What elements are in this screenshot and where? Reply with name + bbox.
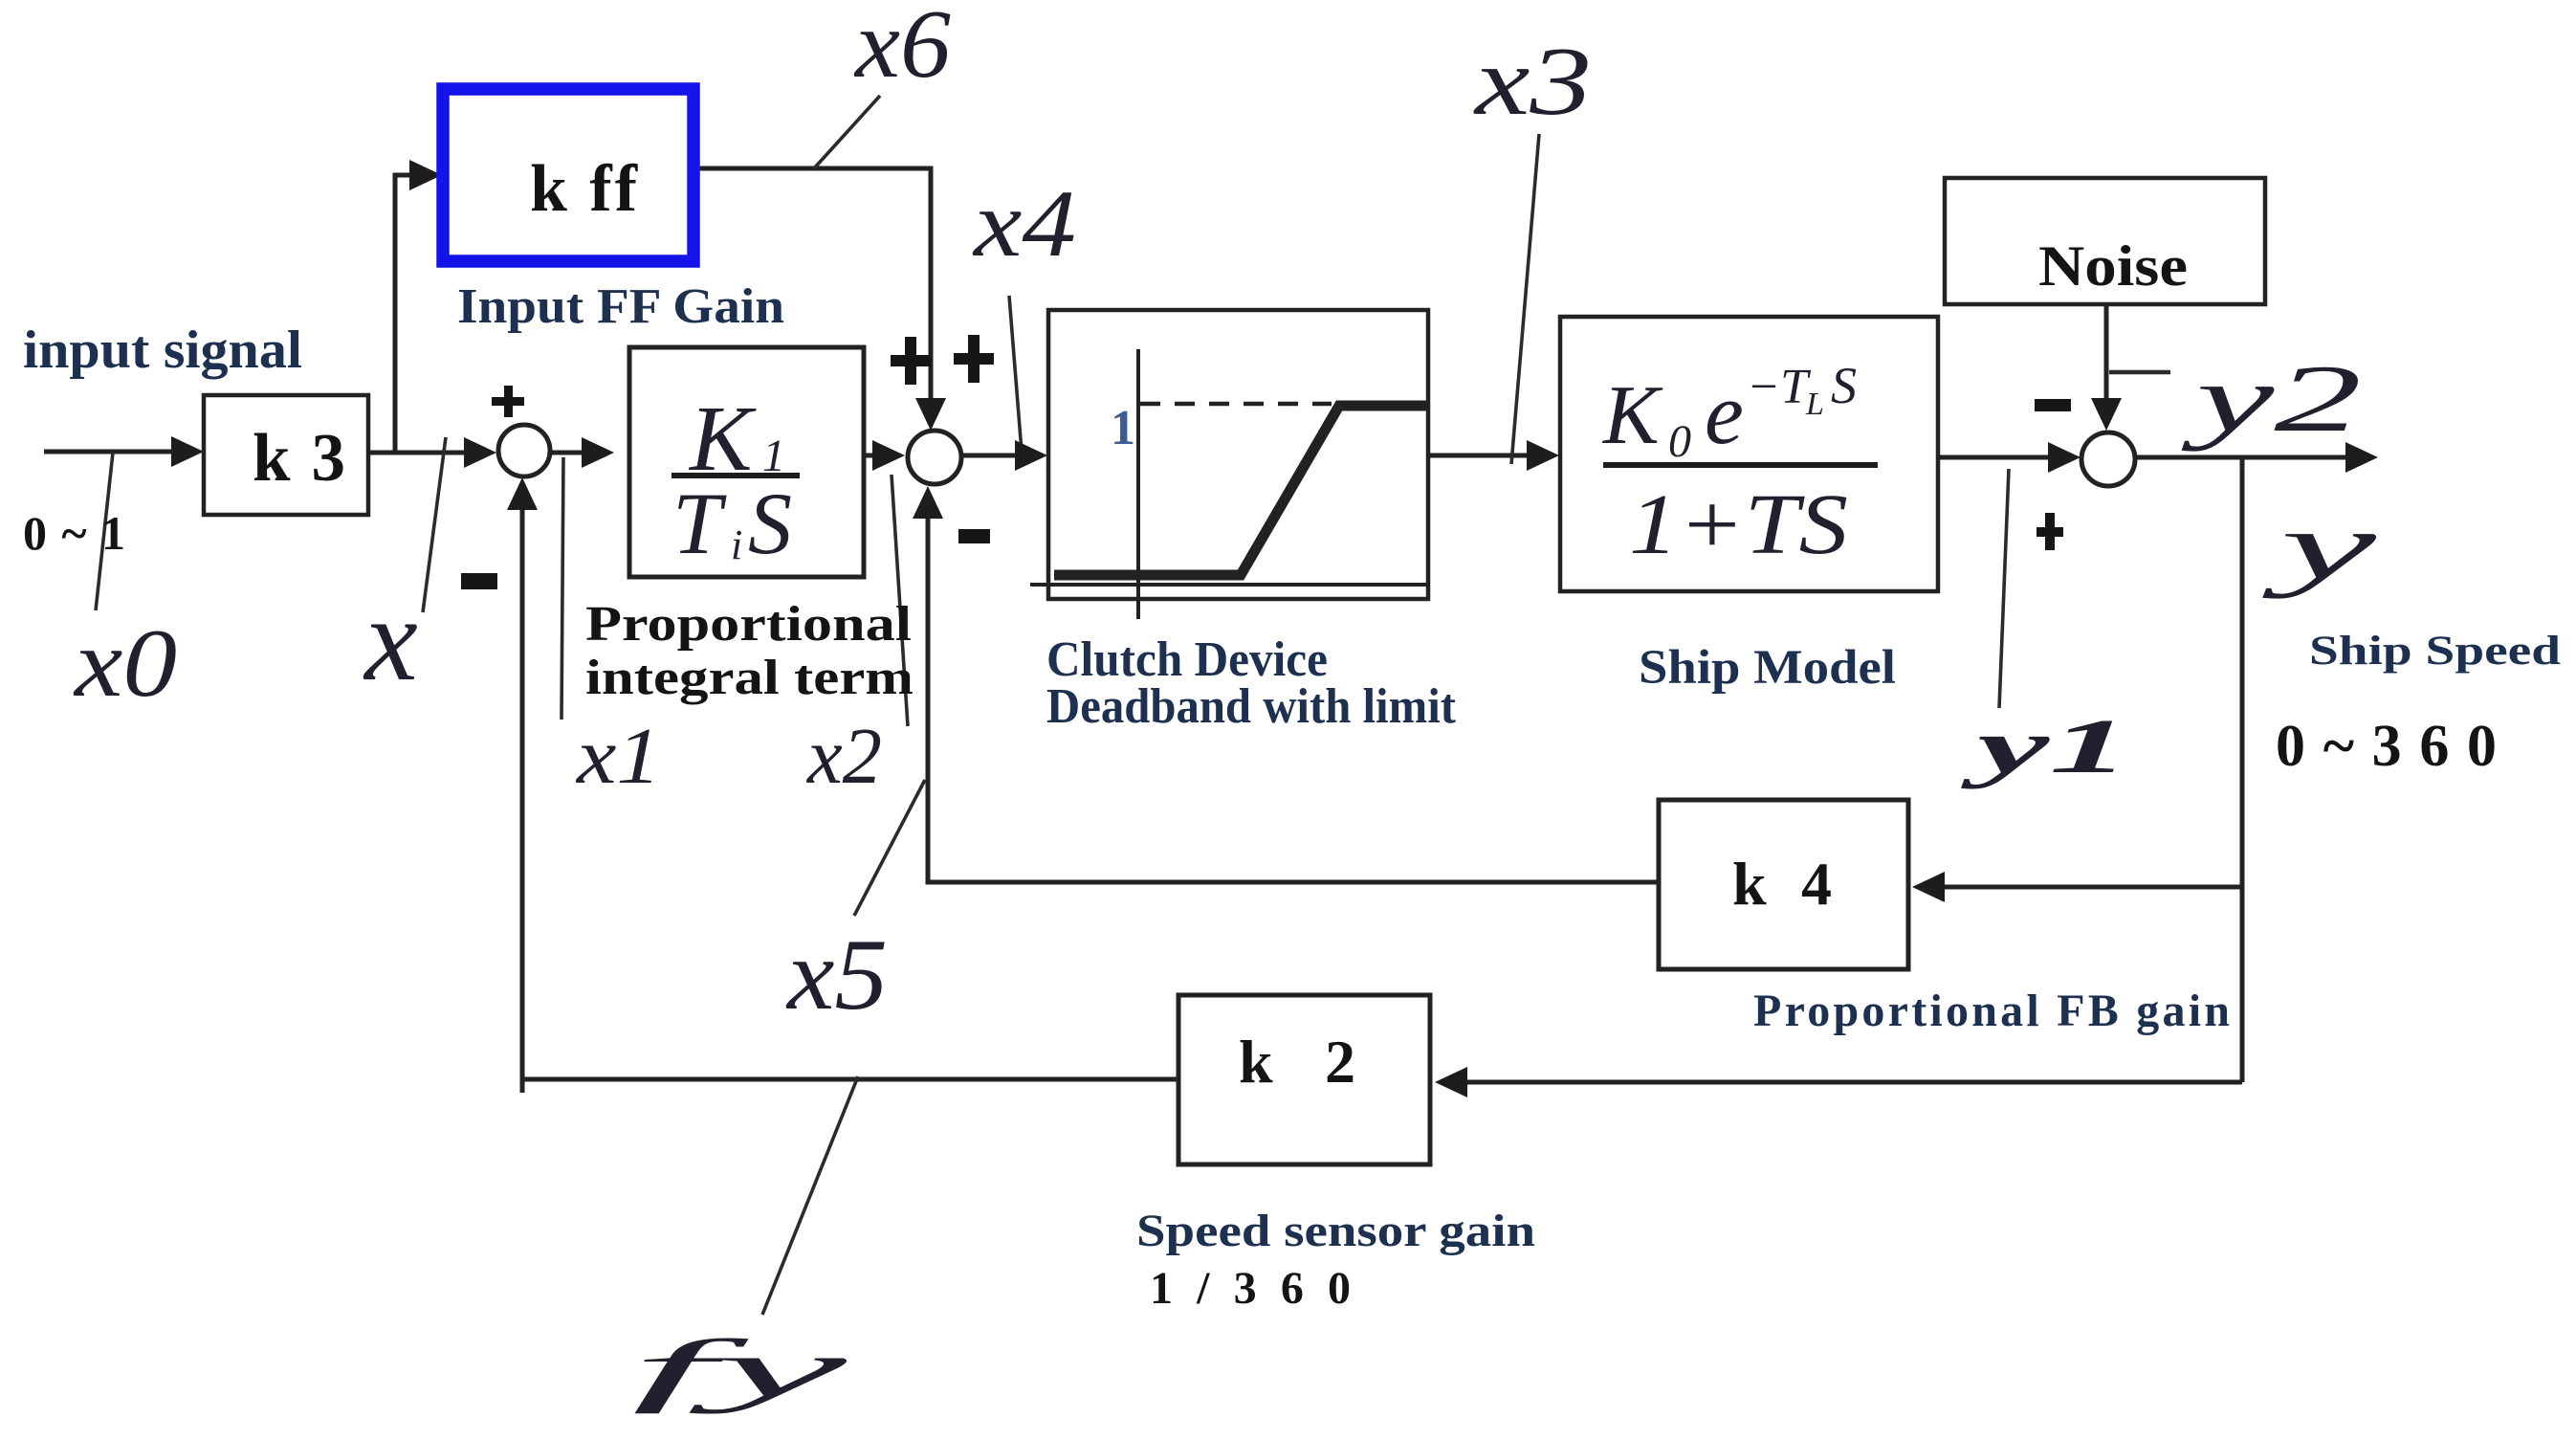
svg-text:x2: x2 — [805, 712, 882, 801]
svg-text:x: x — [363, 574, 417, 706]
svg-text:x6: x6 — [853, 0, 951, 99]
svg-text:fy: fy — [631, 1322, 849, 1414]
svg-text:Ship Speed: Ship Speed — [2309, 629, 2561, 674]
svg-text:k 3: k 3 — [253, 421, 345, 496]
svg-text:k 2: k 2 — [1239, 1028, 1355, 1096]
svg-text:Ship Model: Ship Model — [1639, 641, 1896, 695]
svg-text:y2: y2 — [2181, 345, 2362, 452]
svg-text:x5: x5 — [785, 919, 888, 1030]
svg-text:K: K — [1601, 369, 1663, 462]
svg-text:x3: x3 — [1472, 28, 1592, 136]
svg-text:input signal: input signal — [23, 321, 302, 380]
svg-text:x1: x1 — [575, 712, 661, 801]
svg-text:Noise: Noise — [2038, 234, 2188, 298]
svg-text:T: T — [672, 475, 727, 572]
svg-text:L: L — [1805, 387, 1824, 422]
svg-text:i: i — [731, 521, 742, 568]
svg-text:S: S — [1831, 357, 1857, 414]
svg-text:S: S — [748, 475, 792, 572]
svg-text:Input FF Gain: Input FF Gain — [457, 279, 784, 334]
svg-text:Speed sensor gain: Speed sensor gain — [1136, 1206, 1535, 1256]
svg-text:e: e — [1705, 365, 1744, 462]
svg-text:0: 0 — [1668, 416, 1691, 467]
svg-text:−T: −T — [1747, 360, 1811, 414]
svg-text:Proportional FB gain: Proportional FB gain — [1753, 986, 2230, 1036]
svg-text:x4: x4 — [972, 170, 1076, 277]
svg-text:0~1: 0~1 — [23, 506, 125, 560]
svg-text:Deadband with limit: Deadband with limit — [1046, 679, 1457, 734]
svg-text:k 4: k 4 — [1732, 850, 1832, 918]
svg-text:integral term: integral term — [585, 651, 914, 705]
svg-text:y1: y1 — [1959, 703, 2130, 789]
svg-text:k ff: k ff — [530, 152, 638, 226]
svg-text:1+TS: 1+TS — [1629, 477, 1848, 572]
svg-text:x0: x0 — [73, 609, 177, 718]
svg-text:1: 1 — [1111, 401, 1135, 455]
svg-text:Proportional: Proportional — [585, 597, 912, 652]
